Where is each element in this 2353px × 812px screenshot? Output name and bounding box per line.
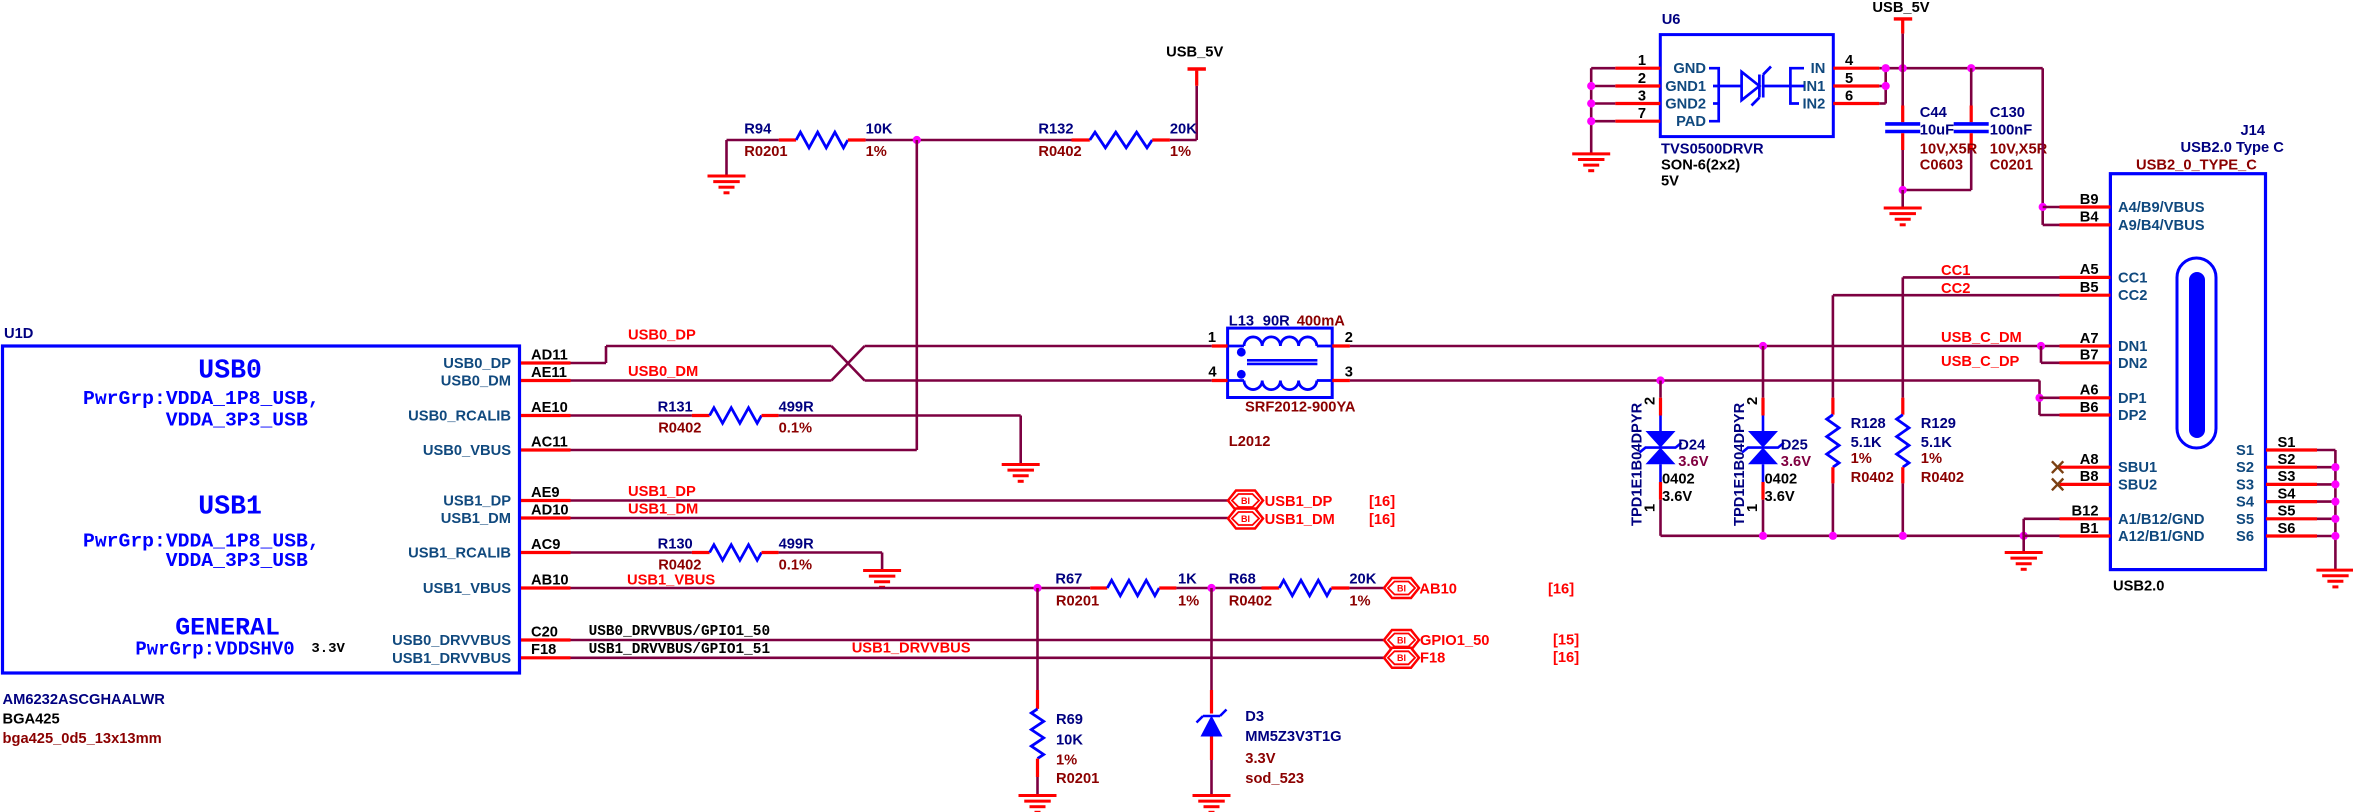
svg-text:S4: S4 xyxy=(2278,486,2297,502)
svg-text:R68: R68 xyxy=(1229,572,1256,588)
svg-text:10V,X5R: 10V,X5R xyxy=(1920,142,1978,158)
svg-text:AC11: AC11 xyxy=(531,434,568,450)
svg-text:DN2: DN2 xyxy=(2118,356,2147,372)
svg-text:A6: A6 xyxy=(2080,383,2099,399)
svg-text:AE11: AE11 xyxy=(531,365,567,381)
svg-text:5.1K: 5.1K xyxy=(1921,435,1952,451)
svg-text:A7: A7 xyxy=(2080,331,2099,347)
svg-text:R0402: R0402 xyxy=(1921,470,1964,486)
svg-text:C0201: C0201 xyxy=(1990,158,2033,174)
svg-text:3.3V: 3.3V xyxy=(311,641,345,657)
svg-text:1%: 1% xyxy=(1921,451,1942,467)
svg-text:USB1: USB1 xyxy=(198,492,262,522)
svg-text:U1D: U1D xyxy=(4,326,33,342)
svg-text:SON-6(2x2): SON-6(2x2) xyxy=(1661,158,1740,174)
svg-text:B9: B9 xyxy=(2080,192,2099,208)
svg-text:1%: 1% xyxy=(866,144,887,160)
svg-text:IN2: IN2 xyxy=(1802,97,1825,113)
svg-text:BGA425: BGA425 xyxy=(3,712,60,728)
svg-text:U6: U6 xyxy=(1662,12,1681,28)
svg-text:[16]: [16] xyxy=(1548,581,1574,597)
svg-text:R0201: R0201 xyxy=(1056,771,1099,787)
svg-text:BI: BI xyxy=(1397,653,1406,663)
svg-text:PwrGrp:VDDSHV0: PwrGrp:VDDSHV0 xyxy=(135,639,294,661)
svg-text:10K: 10K xyxy=(1056,733,1083,749)
svg-text:B5: B5 xyxy=(2080,280,2099,296)
svg-text:DN1: DN1 xyxy=(2118,339,2147,355)
svg-text:1%: 1% xyxy=(1056,753,1077,769)
svg-text:USB2.0: USB2.0 xyxy=(2113,579,2164,595)
svg-text:A5: A5 xyxy=(2080,262,2099,278)
svg-text:F18: F18 xyxy=(531,642,556,658)
svg-text:R0402: R0402 xyxy=(1038,144,1081,160)
svg-text:J14: J14 xyxy=(2241,123,2266,139)
svg-text:R0402: R0402 xyxy=(1851,470,1894,486)
svg-text:TVS0500DRVR: TVS0500DRVR xyxy=(1661,142,1764,158)
svg-text:USB_C_DP: USB_C_DP xyxy=(1941,354,2020,370)
svg-text:D3: D3 xyxy=(1245,709,1264,725)
svg-text:B8: B8 xyxy=(2080,469,2099,485)
svg-text:USB_5V: USB_5V xyxy=(1872,0,1929,16)
svg-text:2: 2 xyxy=(1643,397,1659,405)
svg-text:GND: GND xyxy=(1673,61,1706,77)
svg-text:0.1%: 0.1% xyxy=(779,558,812,574)
svg-text:5.1K: 5.1K xyxy=(1851,435,1882,451)
svg-text:B7: B7 xyxy=(2080,348,2099,364)
svg-text:R94: R94 xyxy=(744,122,772,138)
svg-text:[16]: [16] xyxy=(1369,494,1395,510)
svg-text:S3: S3 xyxy=(2278,469,2296,485)
svg-text:USB0_RCALIB: USB0_RCALIB xyxy=(408,409,511,425)
svg-text:S1: S1 xyxy=(2278,435,2296,451)
svg-text:D24: D24 xyxy=(1678,438,1706,454)
svg-text:1%: 1% xyxy=(1851,451,1872,467)
svg-text:CC2: CC2 xyxy=(2118,288,2147,304)
svg-text:USB1_DP: USB1_DP xyxy=(1265,494,1333,510)
svg-text:VDDA_3P3_USB: VDDA_3P3_USB xyxy=(166,410,308,432)
svg-text:R0201: R0201 xyxy=(744,144,787,160)
svg-text:PwrGrp:VDDA_1P8_USB,: PwrGrp:VDDA_1P8_USB, xyxy=(83,388,320,410)
svg-text:bga425_0d5_13x13mm: bga425_0d5_13x13mm xyxy=(3,731,162,747)
svg-text:C130: C130 xyxy=(1990,105,2025,121)
svg-text:BI: BI xyxy=(1397,635,1406,645)
svg-text:S4: S4 xyxy=(2236,495,2255,511)
svg-text:3.6V: 3.6V xyxy=(1765,489,1795,505)
svg-text:1: 1 xyxy=(1208,330,1216,346)
svg-text:C44: C44 xyxy=(1920,105,1948,121)
svg-text:USB1_DRVVBUS: USB1_DRVVBUS xyxy=(392,651,511,667)
svg-text:DP1: DP1 xyxy=(2118,391,2147,407)
svg-text:D25: D25 xyxy=(1781,438,1808,454)
svg-text:3.3V: 3.3V xyxy=(1245,751,1275,767)
svg-text:5: 5 xyxy=(1845,71,1853,87)
svg-text:R130: R130 xyxy=(658,537,693,553)
svg-text:CC1: CC1 xyxy=(1941,263,1970,279)
svg-text:3.6V: 3.6V xyxy=(1678,454,1708,470)
svg-text:1%: 1% xyxy=(1349,594,1370,610)
svg-text:1%: 1% xyxy=(1178,594,1199,610)
svg-text:USB1_DRVVBUS: USB1_DRVVBUS xyxy=(852,641,971,657)
svg-text:7: 7 xyxy=(1638,106,1646,122)
svg-text:MM5Z3V3T1G: MM5Z3V3T1G xyxy=(1245,729,1341,745)
svg-text:0402: 0402 xyxy=(1765,472,1798,488)
svg-text:C20: C20 xyxy=(531,624,558,640)
svg-text:4: 4 xyxy=(1845,53,1854,69)
svg-text:USB0_DM: USB0_DM xyxy=(628,364,698,380)
svg-text:USB1_DP: USB1_DP xyxy=(443,494,511,510)
svg-text:USB1_RCALIB: USB1_RCALIB xyxy=(408,546,511,562)
svg-text:USB1_DP: USB1_DP xyxy=(628,484,696,500)
svg-text:1: 1 xyxy=(1745,504,1761,512)
svg-text:0.1%: 0.1% xyxy=(779,421,812,437)
svg-text:R129: R129 xyxy=(1921,416,1956,432)
svg-text:BI: BI xyxy=(1397,583,1406,593)
svg-text:B1: B1 xyxy=(2080,521,2099,537)
svg-text:[16]: [16] xyxy=(1369,512,1395,528)
svg-text:[15]: [15] xyxy=(1553,633,1579,649)
svg-text:R132: R132 xyxy=(1038,122,1073,138)
svg-text:DP2: DP2 xyxy=(2118,408,2147,424)
svg-text:GND1: GND1 xyxy=(1665,79,1706,95)
svg-text:PAD: PAD xyxy=(1676,114,1706,130)
svg-text:20K: 20K xyxy=(1349,572,1376,588)
svg-text:R69: R69 xyxy=(1056,712,1083,728)
svg-text:BI: BI xyxy=(1241,496,1250,506)
svg-text:B12: B12 xyxy=(2072,504,2099,520)
svg-text:R128: R128 xyxy=(1851,416,1886,432)
svg-text:GPIO1_50: GPIO1_50 xyxy=(1420,633,1489,649)
svg-text:CC1: CC1 xyxy=(2118,270,2147,286)
svg-text:R131: R131 xyxy=(658,400,693,416)
svg-text:C0603: C0603 xyxy=(1920,158,1963,174)
svg-text:R67: R67 xyxy=(1055,572,1082,588)
svg-text:S2: S2 xyxy=(2278,452,2296,468)
svg-text:IN: IN xyxy=(1811,61,1826,77)
svg-text:R0402: R0402 xyxy=(658,558,701,574)
svg-text:AM6232ASCGHAALWR: AM6232ASCGHAALWR xyxy=(3,692,166,708)
svg-text:2: 2 xyxy=(1638,71,1646,87)
svg-text:S6: S6 xyxy=(2278,521,2296,537)
svg-text:USB_C_DM: USB_C_DM xyxy=(1941,330,2022,346)
svg-text:3: 3 xyxy=(1345,365,1353,381)
svg-text:A4/B9/VBUS: A4/B9/VBUS xyxy=(2118,200,2205,216)
svg-text:USB0_DP: USB0_DP xyxy=(443,356,511,372)
svg-text:AD10: AD10 xyxy=(531,502,569,518)
svg-text:SBU1: SBU1 xyxy=(2118,460,2157,476)
svg-text:AE10: AE10 xyxy=(531,400,568,416)
svg-text:400mA: 400mA xyxy=(1297,314,1346,330)
svg-text:USB0_DM: USB0_DM xyxy=(441,374,511,390)
svg-text:SBU2: SBU2 xyxy=(2118,477,2157,493)
svg-text:USB0_DRVVBUS: USB0_DRVVBUS xyxy=(392,633,511,649)
svg-text:B6: B6 xyxy=(2080,400,2099,416)
svg-text:10uF: 10uF xyxy=(1920,123,1954,139)
svg-text:A9/B4/VBUS: A9/B4/VBUS xyxy=(2118,218,2205,234)
svg-text:3: 3 xyxy=(1638,88,1646,104)
svg-text:1: 1 xyxy=(1643,504,1659,512)
svg-text:GND2: GND2 xyxy=(1665,97,1706,113)
svg-text:USB1_VBUS: USB1_VBUS xyxy=(423,581,511,597)
svg-text:AC9: AC9 xyxy=(531,537,560,553)
svg-text:USB0_VBUS: USB0_VBUS xyxy=(423,443,511,459)
svg-text:100nF: 100nF xyxy=(1990,123,2032,139)
svg-text:AB10: AB10 xyxy=(1419,581,1457,597)
svg-text:USB1_DM: USB1_DM xyxy=(628,502,698,518)
svg-text:CC2: CC2 xyxy=(1941,281,1970,297)
svg-text:B4: B4 xyxy=(2080,210,2100,226)
svg-text:USB1_DM: USB1_DM xyxy=(1265,512,1335,528)
svg-text:USB1_VBUS: USB1_VBUS xyxy=(627,573,715,589)
svg-text:VDDA_3P3_USB: VDDA_3P3_USB xyxy=(166,550,308,572)
svg-text:S1: S1 xyxy=(2236,443,2254,459)
svg-text:10K: 10K xyxy=(866,122,893,138)
svg-text:USB_5V: USB_5V xyxy=(1166,45,1223,61)
svg-text:[16]: [16] xyxy=(1553,650,1579,666)
svg-text:90R: 90R xyxy=(1263,314,1290,330)
svg-text:SRF2012-900YA: SRF2012-900YA xyxy=(1245,400,1356,416)
svg-text:R0201: R0201 xyxy=(1056,594,1099,610)
svg-text:5V: 5V xyxy=(1661,174,1679,190)
svg-text:USB1_DRVVBUS/GPIO1_51: USB1_DRVVBUS/GPIO1_51 xyxy=(589,642,771,658)
svg-text:sod_523: sod_523 xyxy=(1245,771,1304,787)
svg-text:2: 2 xyxy=(1745,397,1761,405)
svg-text:L2012: L2012 xyxy=(1229,434,1271,450)
svg-text:A12/B1/GND: A12/B1/GND xyxy=(2118,529,2205,545)
svg-text:3.6V: 3.6V xyxy=(1781,454,1811,470)
svg-text:USB2_0_TYPE_C: USB2_0_TYPE_C xyxy=(2136,158,2257,174)
svg-text:AB10: AB10 xyxy=(531,572,569,588)
svg-text:20K: 20K xyxy=(1170,122,1197,138)
svg-text:USB0: USB0 xyxy=(198,356,262,386)
svg-text:2: 2 xyxy=(1345,330,1353,346)
svg-text:499R: 499R xyxy=(779,537,815,553)
svg-text:3.6V: 3.6V xyxy=(1662,489,1692,505)
svg-text:USB2.0 Type C: USB2.0 Type C xyxy=(2181,140,2285,156)
svg-text:4: 4 xyxy=(1208,365,1217,381)
svg-text:R0402: R0402 xyxy=(658,421,701,437)
svg-text:S5: S5 xyxy=(2278,504,2296,520)
svg-text:S5: S5 xyxy=(2236,512,2254,528)
svg-text:IN1: IN1 xyxy=(1802,79,1825,95)
svg-text:S3: S3 xyxy=(2236,477,2254,493)
svg-text:A1/B12/GND: A1/B12/GND xyxy=(2118,512,2205,528)
svg-text:USB0_DP: USB0_DP xyxy=(628,328,696,344)
svg-text:USB1_DM: USB1_DM xyxy=(441,511,511,527)
svg-text:10V,X5R: 10V,X5R xyxy=(1990,142,2048,158)
svg-text:499R: 499R xyxy=(779,400,815,416)
svg-text:1K: 1K xyxy=(1178,572,1197,588)
svg-text:S6: S6 xyxy=(2236,529,2254,545)
svg-text:0402: 0402 xyxy=(1662,472,1695,488)
svg-text:AE9: AE9 xyxy=(531,485,560,501)
svg-text:6: 6 xyxy=(1845,88,1853,104)
svg-text:R0402: R0402 xyxy=(1229,594,1272,610)
svg-text:BI: BI xyxy=(1241,514,1250,524)
svg-text:S2: S2 xyxy=(2236,460,2254,476)
svg-text:1%: 1% xyxy=(1170,144,1191,160)
svg-text:F18: F18 xyxy=(1420,651,1445,667)
svg-text:A8: A8 xyxy=(2080,452,2099,468)
svg-text:USB0_DRVVBUS/GPIO1_50: USB0_DRVVBUS/GPIO1_50 xyxy=(589,624,771,640)
svg-text:1: 1 xyxy=(1638,53,1646,69)
svg-text:L13: L13 xyxy=(1229,314,1254,330)
svg-text:AD11: AD11 xyxy=(531,347,568,363)
